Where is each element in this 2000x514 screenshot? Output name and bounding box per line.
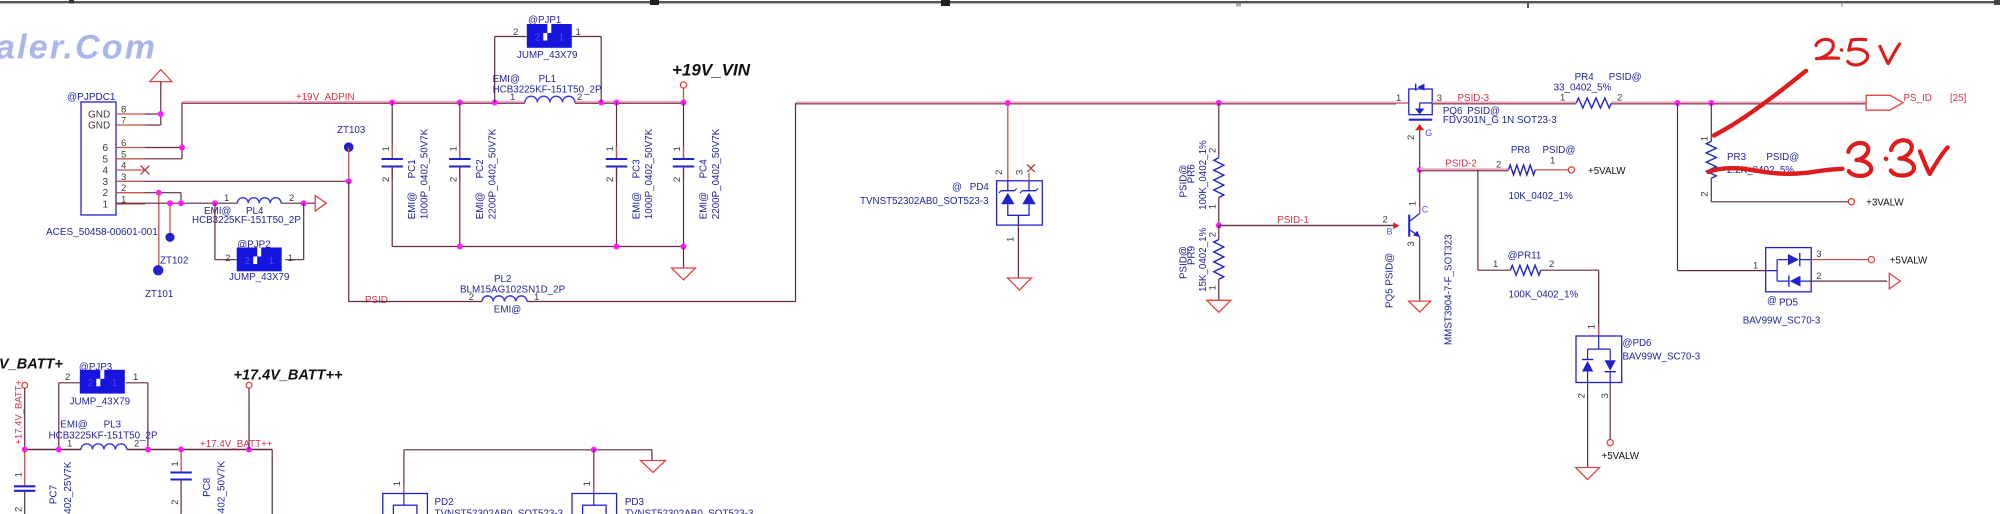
- svg-text:1: 1: [1587, 324, 1598, 329]
- svg-text:PL3: PL3: [104, 420, 122, 431]
- svg-text:1000P_0402_50V7K: 1000P_0402_50V7K: [644, 128, 655, 219]
- ground under PC4: [672, 268, 696, 280]
- wire rail to ground: [651, 450, 653, 461]
- svg-text:PR9: PR9: [1187, 246, 1198, 265]
- svg-text:1000P_0402_25V7K: 1000P_0402_25V7K: [63, 461, 74, 514]
- svg-text:100K_0402_1%: 100K_0402_1%: [1198, 140, 1209, 210]
- svg-text:PD3: PD3: [625, 497, 645, 508]
- svg-text:2: 2: [1208, 148, 1219, 153]
- wire PSID from PL2 to right riser: [527, 301, 796, 303]
- junction PSID pin3: [346, 178, 352, 184]
- wire to PD3 pin1: [593, 450, 595, 494]
- svg-text:2: 2: [289, 193, 294, 204]
- svg-text:2: 2: [381, 177, 392, 182]
- svg-text:@: @: [952, 182, 962, 193]
- handwriting 2.5v: [1816, 39, 1900, 65]
- svg-text:PD5: PD5: [1779, 298, 1799, 309]
- wire +17.4V_BATT++ down to rail: [248, 388, 250, 449]
- svg-text:1: 1: [102, 200, 108, 211]
- svg-text:2: 2: [994, 170, 1005, 175]
- svg-text:TVNST52302AB0_SOT523-3: TVNST52302AB0_SOT523-3: [435, 509, 564, 514]
- svg-text:2: 2: [1700, 191, 1711, 196]
- wire PSID-1: [1219, 225, 1394, 227]
- svg-text:PC1: PC1: [407, 159, 418, 178]
- svg-text:2: 2: [1496, 160, 1501, 171]
- wire to test point ZT101: [158, 193, 160, 271]
- wire capacitor bottom rail: [392, 246, 683, 248]
- svg-text:PL2: PL2: [494, 274, 511, 285]
- wire PSID riser up to top rail: [795, 103, 797, 302]
- svg-text:2: 2: [14, 507, 25, 512]
- ground right of PD3: [641, 461, 666, 473]
- diode PD3: [572, 494, 617, 514]
- wire PSID horizontal to PL2: [349, 301, 482, 303]
- connector PJPDC1 pin stubs: [116, 113, 145, 115]
- wire PQ6 gate down to PSID-2: [1419, 130, 1421, 170]
- diode PD6 BAV99W: [1576, 336, 1622, 383]
- svg-text:1: 1: [14, 472, 25, 477]
- svg-text:1: 1: [392, 481, 403, 486]
- power symbol +19V_ADPIN triangle above connector: [150, 70, 172, 82]
- svg-text:PSID-1: PSID-1: [1277, 215, 1309, 226]
- svg-text:HCB3225KF-151T50_2P: HCB3225KF-151T50_2P: [493, 85, 602, 96]
- svg-text:1: 1: [1208, 285, 1219, 290]
- svg-text:C: C: [1422, 205, 1429, 215]
- wire PJP3 pin2 to rail: [59, 382, 80, 384]
- junction PSID-1: [1216, 223, 1222, 229]
- svg-text:B: B: [1387, 227, 1393, 237]
- svg-text:1: 1: [112, 377, 118, 389]
- wire pin3 PSID net horizontal: [145, 180, 349, 182]
- wire PR3 to +3VALW: [1711, 201, 1848, 203]
- wire battery rail end down: [271, 450, 273, 514]
- svg-text:PC8: PC8: [202, 477, 213, 497]
- power flag +17.4V_BATT+ circle: [22, 382, 28, 388]
- svg-text:+5VALW: +5VALW: [1588, 166, 1626, 177]
- svg-text:1: 1: [1208, 204, 1219, 209]
- svg-text:2: 2: [535, 31, 541, 43]
- svg-text:PR4: PR4: [1575, 72, 1595, 83]
- svg-text:2: 2: [1549, 259, 1554, 270]
- wire rail down to PD5 pin1: [1677, 103, 1679, 271]
- svg-text:+19V_VIN: +19V_VIN: [672, 61, 751, 80]
- svg-text:1: 1: [1550, 156, 1555, 167]
- svg-text:BAV99W_SC70-3: BAV99W_SC70-3: [1623, 352, 1701, 363]
- wire battery rail: [25, 449, 81, 451]
- power flag +3VALW: [1848, 199, 1854, 205]
- connector PJPDC1 body: [81, 102, 116, 215]
- svg-text:PSID@: PSID@: [1766, 152, 1799, 163]
- svg-text:2: 2: [1406, 135, 1417, 140]
- handwriting 3.3v: [1848, 140, 1947, 176]
- ground under PQ5: [1409, 301, 1431, 312]
- transistor PQ5 MMST3904: [1408, 215, 1410, 237]
- wire PD6 pin2 to ground: [1587, 383, 1589, 468]
- svg-text:@: @: [1767, 296, 1777, 307]
- svg-text:EMI@: EMI@: [699, 192, 710, 219]
- svg-text:1: 1: [224, 193, 229, 204]
- svg-text:PQ5 PSID@: PQ5 PSID@: [1385, 253, 1396, 308]
- svg-text:PS_ID: PS_ID: [1904, 93, 1932, 104]
- svg-text:6: 6: [102, 143, 108, 154]
- svg-text:1: 1: [672, 146, 683, 151]
- test point ZT101: [153, 265, 163, 275]
- svg-text:1: 1: [559, 31, 565, 43]
- svg-text:3: 3: [1015, 170, 1026, 175]
- diode PD4 TVS: [997, 181, 1043, 225]
- diode PD5 BAV99W: [1766, 248, 1812, 292]
- wire +19V_ADPIN rail: [182, 101, 525, 103]
- svg-text:MMST3904-7-F_SOT323: MMST3904-7-F_SOT323: [1444, 234, 1455, 345]
- handwriting underline for 3.3v: [1709, 168, 1843, 173]
- svg-text:+3VALW: +3VALW: [1866, 198, 1904, 209]
- svg-text:PC2: PC2: [475, 159, 486, 178]
- svg-text:5: 5: [102, 154, 108, 165]
- svg-text:ACES_50458-00601-001: ACES_50458-00601-001: [46, 227, 158, 238]
- svg-text:JUMP_43X79: JUMP_43X79: [229, 272, 289, 283]
- svg-text:EMI@: EMI@: [407, 192, 418, 219]
- wire PQ5 emitter to ground: [1419, 237, 1421, 301]
- svg-text:EMI@: EMI@: [493, 74, 520, 85]
- resistor PR9: [1214, 240, 1224, 280]
- svg-text:PR6: PR6: [1187, 164, 1198, 184]
- svg-text:2200P_0402_50V7K: 2200P_0402_50V7K: [487, 128, 498, 219]
- svg-text:3: 3: [1816, 249, 1821, 260]
- svg-text:HCB3225KF-151T50_2P: HCB3225KF-151T50_2P: [49, 431, 158, 442]
- ground under PD4: [1008, 278, 1032, 290]
- svg-text:2: 2: [88, 377, 94, 389]
- svg-text:2: 2: [244, 255, 250, 267]
- svg-text:2: 2: [1383, 215, 1388, 226]
- svg-text:3: 3: [102, 177, 108, 188]
- svg-text:2: 2: [1577, 393, 1588, 398]
- svg-text:G: G: [1425, 128, 1432, 138]
- wire PJP1 pin1 down to rail: [572, 36, 602, 38]
- svg-text:ZT101: ZT101: [145, 289, 173, 300]
- inductor PL4: [237, 198, 281, 203]
- wire PJP2 pin1 to PL4 pin2: [285, 259, 303, 261]
- svg-text:2: 2: [134, 439, 139, 450]
- wire pin1 / PL4 net: [116, 202, 237, 204]
- svg-text:2: 2: [1208, 232, 1219, 237]
- svg-text:2: 2: [469, 292, 474, 303]
- svg-text:BLM15AG102SN1D_2P: BLM15AG102SN1D_2P: [460, 285, 566, 296]
- svg-text:3: 3: [1600, 393, 1611, 398]
- svg-text:V_BATT+: V_BATT+: [0, 357, 63, 373]
- wire rail PR4 to PS_ID: [1611, 101, 1866, 103]
- wire PJP1 pin2 down to rail: [495, 36, 527, 38]
- svg-text:PC7: PC7: [49, 485, 60, 504]
- svg-text:GND: GND: [88, 121, 110, 132]
- power flag +5VALW at PD6: [1607, 440, 1613, 446]
- svg-text:1: 1: [1396, 93, 1401, 104]
- wire PJP3 pin1 to rail: [126, 382, 148, 384]
- capacitor PC2: [459, 103, 461, 159]
- svg-text:2: 2: [1816, 271, 1821, 282]
- ground under PD6: [1576, 468, 1600, 480]
- svg-text:1: 1: [170, 461, 181, 466]
- svg-text:JUMP_43X79: JUMP_43X79: [517, 50, 577, 61]
- off-page flag PS_ID: [1866, 95, 1903, 110]
- svg-text:1: 1: [1408, 201, 1419, 206]
- transistor PQ6 FDV301N: [1409, 89, 1432, 115]
- svg-text:PSID@: PSID@: [1609, 72, 1642, 83]
- svg-text:1: 1: [268, 255, 274, 267]
- svg-text:2: 2: [225, 253, 230, 264]
- svg-text:PR8: PR8: [1511, 145, 1531, 156]
- svg-text:GND: GND: [88, 110, 110, 121]
- svg-text:@PJPDC1: @PJPDC1: [67, 92, 116, 103]
- wire PQ5 collector: [1419, 170, 1421, 214]
- svg-text:1: 1: [381, 146, 392, 151]
- wire PL4 pin2 to off-page arrow: [281, 202, 315, 204]
- svg-text:PC3: PC3: [632, 159, 643, 179]
- svg-text:+17.4V_BATT+: +17.4V_BATT+: [14, 379, 25, 444]
- capacitor PC3: [616, 103, 618, 159]
- wire ZT103 to PSID net: [348, 147, 350, 181]
- svg-text:2: 2: [577, 92, 582, 103]
- svg-text:aler.Com: aler.Com: [0, 29, 157, 67]
- svg-text:EMI@: EMI@: [475, 192, 486, 219]
- svg-text:+17.4V_BATT++: +17.4V_BATT++: [234, 368, 343, 384]
- test point ZT102: [165, 233, 174, 242]
- svg-text:BAV99W_SC70-3: BAV99W_SC70-3: [1743, 316, 1821, 327]
- svg-text:4: 4: [102, 166, 108, 177]
- junction pin8: [158, 111, 164, 117]
- svg-text:PSID: PSID: [365, 295, 388, 306]
- svg-text:1: 1: [67, 439, 72, 450]
- svg-text:2: 2: [170, 500, 181, 505]
- svg-text:1: 1: [133, 372, 138, 383]
- svg-text:2200P_0402_50V7K: 2200P_0402_50V7K: [216, 461, 227, 514]
- power flag +5VALW at PR8: [1568, 167, 1574, 173]
- svg-text:1: 1: [1006, 237, 1017, 242]
- junction PSID-2: [1417, 167, 1423, 173]
- wire PR11 to PD6: [1541, 269, 1599, 271]
- svg-text:1: 1: [1753, 261, 1758, 272]
- wire PSID vertical: [348, 181, 350, 301]
- junction pin2: [156, 190, 162, 196]
- resistor PR3: [1706, 141, 1716, 178]
- diode PD2: [383, 494, 428, 514]
- svg-text:100K_0402_1%: 100K_0402_1%: [1509, 290, 1579, 301]
- svg-text:15K_0402_1%: 15K_0402_1%: [1198, 227, 1209, 292]
- svg-text:1: 1: [449, 146, 460, 151]
- svg-text:1: 1: [510, 92, 515, 103]
- svg-text:ZT102: ZT102: [160, 256, 188, 267]
- svg-text:EMI@: EMI@: [632, 192, 643, 219]
- svg-text:1: 1: [1560, 93, 1565, 104]
- handwriting pointer line for 2.5v: [1714, 71, 1806, 136]
- svg-text:1: 1: [1700, 136, 1711, 141]
- svg-text:1: 1: [605, 146, 616, 151]
- svg-text:2: 2: [672, 177, 683, 182]
- wire PSID-2 horizontal: [1420, 168, 1509, 170]
- junction pin6: [179, 145, 185, 151]
- wire to test point ZT102: [169, 203, 171, 237]
- wire to PR3: [1710, 103, 1712, 141]
- svg-text:PD4: PD4: [970, 182, 990, 193]
- svg-text:3: 3: [1406, 241, 1417, 246]
- svg-text:@PR11: @PR11: [1508, 251, 1542, 262]
- wire PSID-3 rail right of PQ6: [1432, 101, 1576, 103]
- wire PD2 PD3 rail: [404, 449, 652, 451]
- svg-text:PSID@: PSID@: [1543, 145, 1576, 156]
- wire PD4 pin1 to ground: [1017, 225, 1019, 278]
- svg-text:EMI@: EMI@: [60, 420, 87, 431]
- wire rail into PQ6 pin1: [1396, 102, 1409, 104]
- svg-text:PD2: PD2: [435, 497, 454, 508]
- svg-text:PC4: PC4: [699, 159, 710, 179]
- wire pins 6-5 to +19V rail vertical: [145, 147, 182, 149]
- capacitor PC8: [180, 450, 182, 473]
- wire PSID top rail: [796, 101, 1397, 103]
- svg-text:+5VALW: +5VALW: [1602, 451, 1640, 462]
- svg-text:@PD6: @PD6: [1623, 338, 1653, 349]
- svg-text:2200P_0402_50V7K: 2200P_0402_50V7K: [711, 128, 722, 219]
- svg-text:PL1: PL1: [539, 74, 556, 85]
- svg-text:ZT103: ZT103: [337, 125, 366, 136]
- wire +17.4V_BATT+ down: [24, 388, 26, 449]
- svg-text:JUMP_43X79: JUMP_43X79: [70, 397, 130, 408]
- svg-text:+5VALW: +5VALW: [1890, 256, 1928, 267]
- svg-text:HCB3225KF-151T50_2P: HCB3225KF-151T50_2P: [192, 215, 301, 226]
- svg-text:1: 1: [288, 253, 293, 264]
- wire PJP2 pin2 to PL4 pin1: [215, 259, 237, 261]
- svg-text:PR3: PR3: [1727, 152, 1747, 163]
- capacitor PC4: [683, 103, 685, 159]
- resistor PR6: [1218, 103, 1220, 158]
- off-page arrow right of PL4: [315, 195, 326, 211]
- svg-text:FDV301N_G 1N SOT23-3: FDV301N_G 1N SOT23-3: [1443, 115, 1557, 126]
- no-connect X on pin 4: [141, 166, 150, 175]
- junction dots on +19V rail: [389, 100, 395, 106]
- wire pin2 segment: [145, 192, 181, 194]
- svg-text:[25]: [25]: [1950, 93, 1967, 104]
- wire to ground under PC4: [683, 247, 685, 269]
- wire PSID-2 down to PR11: [1477, 170, 1479, 270]
- svg-text:2: 2: [65, 372, 70, 383]
- wire PD6 pin3 to +5VALW: [1609, 383, 1611, 440]
- off-page arrow at PD5 pin2: [1889, 273, 1900, 289]
- svg-text:PSID-2: PSID-2: [1445, 159, 1477, 170]
- svg-text:TVNST52302AB0_SOT523-3: TVNST52302AB0_SOT523-3: [860, 196, 989, 207]
- svg-text:+17.4V_BATT++: +17.4V_BATT++: [200, 439, 273, 450]
- ground under PR9: [1207, 300, 1231, 312]
- svg-text:TVNST52302AB0_SOT523-3: TVNST52302AB0_SOT523-3: [625, 509, 754, 514]
- wire to PD2 pin1: [403, 450, 405, 494]
- svg-text:1: 1: [582, 481, 593, 486]
- PQ5 base red arrow: [1393, 222, 1399, 229]
- wire pins 8-7 to power symbol: [160, 82, 162, 125]
- wire PD4 pin2 to rail: [1007, 103, 1009, 181]
- capacitor PC1: [391, 103, 393, 159]
- svg-text:EMI@: EMI@: [494, 305, 521, 316]
- svg-text:10K_0402_1%: 10K_0402_1%: [1509, 191, 1574, 202]
- svg-text:1000P_0402_50V7K: 1000P_0402_50V7K: [420, 128, 431, 219]
- svg-text:2: 2: [102, 188, 108, 199]
- svg-text:2: 2: [605, 177, 616, 182]
- svg-text:1: 1: [1493, 259, 1498, 270]
- capacitor PC7: [24, 450, 26, 486]
- svg-text:2: 2: [449, 177, 460, 182]
- sheet border top line: [0, 1, 2000, 3]
- no-connect X on PD4 pin3: [1028, 173, 1030, 181]
